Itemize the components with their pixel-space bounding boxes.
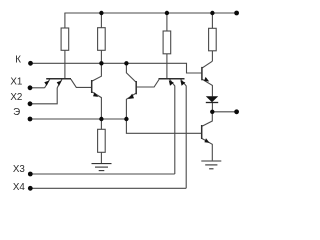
junction rail R3 (165, 11, 169, 15)
transistor T1 emitter 1 (45, 79, 50, 88)
transistor T2 collector (92, 63, 101, 81)
terminal Vcc (234, 11, 239, 16)
terminal K (28, 61, 33, 66)
junction E T3 (124, 117, 128, 121)
terminal X4 (28, 186, 33, 191)
wire X4 lead (30, 187, 186, 189)
svg-text:X4: X4 (13, 182, 26, 193)
transistor T4 emitter 1 (170, 79, 175, 174)
svg-text:X3: X3 (13, 164, 26, 175)
diode D1 triangle (206, 96, 218, 102)
wire T3 base link (137, 80, 159, 88)
arrow T4 emitter 2 (180, 80, 185, 85)
svg-text:К: К (15, 54, 21, 65)
ground G1 under R5 (92, 163, 112, 165)
wire R2 top lead (100, 13, 102, 28)
terminal E (28, 117, 33, 122)
arrow T5 emitter (204, 77, 209, 82)
diode D1 cathode bar (206, 102, 218, 104)
wire X1 lead (30, 87, 45, 89)
arrow T3 emitter (128, 94, 134, 99)
wire E line (30, 118, 126, 120)
wire Vcc top rail (64, 12, 236, 14)
transistor T3 collector (126, 63, 135, 82)
arrow T4 emitter 1 (169, 80, 174, 85)
transistor T6 base bar (201, 125, 203, 139)
wire E node to R5 (100, 119, 102, 129)
wire R3 bottom lead to T4 base (166, 54, 168, 79)
arrow T1 emitter 1 (44, 81, 49, 86)
svg-text:X1: X1 (10, 77, 22, 88)
transistor T5 emitter to diode (202, 79, 212, 96)
transistor T1 emitter 2 (57, 79, 62, 88)
transistor T4 emitter 2 (181, 79, 187, 188)
resistor R2 (98, 28, 106, 51)
junction K T2 (99, 61, 103, 65)
wire E net to T6 base (126, 119, 201, 133)
junction rail R2 (99, 11, 103, 15)
transistor T2 emitter (92, 92, 101, 119)
wire output (212, 111, 236, 113)
resistor R5 (98, 129, 106, 152)
svg-text:Э: Э (13, 107, 20, 118)
transistor T1 collector to T2 base (71, 79, 91, 87)
wire X2 lead (30, 88, 57, 104)
resistor R3 (163, 31, 171, 54)
wire R4 bottom lead to T5 collector (211, 51, 213, 61)
terminal X2 (28, 101, 33, 106)
arrow T1 emitter 2 (57, 81, 62, 86)
transistor T2 base bar (91, 80, 93, 93)
wire R3 top lead (166, 13, 168, 31)
transistor T3 base bar (135, 81, 137, 94)
transistor T5 base bar (201, 67, 203, 80)
wire diode cathode to output node (211, 103, 213, 112)
wire R5 to ground (100, 152, 102, 163)
resistor R4 (209, 28, 217, 51)
arrow T2 emitter (93, 92, 98, 97)
wire R4 top lead (211, 13, 213, 28)
terminal output (234, 109, 239, 114)
transistor T1 base bar (46, 78, 71, 80)
transistor T6 emitter to ground (202, 139, 212, 161)
junction rail R4 (210, 11, 214, 15)
terminal X1 (28, 85, 33, 90)
junction K T3 (124, 61, 128, 65)
arrow T6 emitter (204, 138, 209, 143)
wire R2 bottom lead (100, 50, 102, 63)
svg-text:X2: X2 (10, 92, 22, 103)
ground G2 under T6 (201, 160, 221, 162)
wire R1 top lead (64, 13, 66, 28)
junction E T2 (99, 117, 103, 121)
wire K line (31, 63, 202, 73)
wire X3 lead (30, 173, 175, 175)
transistor T3 emitter (126, 93, 135, 119)
terminal X3 (28, 172, 33, 177)
resistor R1 (61, 28, 69, 50)
transistor T4 base bar (159, 78, 185, 80)
transistor T5 collector (202, 61, 212, 68)
junction output node (210, 110, 214, 114)
wire R1 bottom lead to T1 base (64, 50, 66, 78)
wire output node down to T6 collector (202, 112, 212, 126)
